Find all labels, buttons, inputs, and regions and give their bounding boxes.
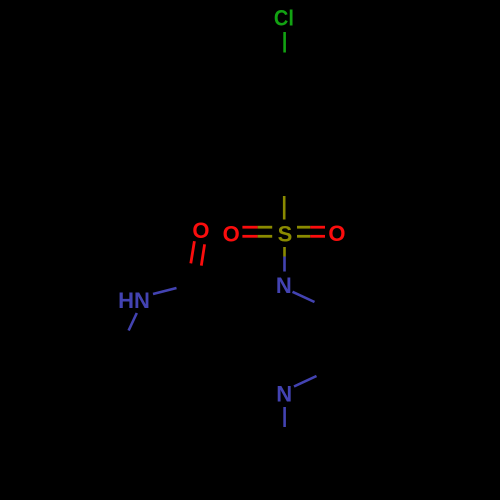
N-CH2 bond up-right (blue half) [294,376,317,387]
C-S bond (olive half) [283,196,286,220]
C=O double bond (red halves) [191,241,195,263]
Cl-C bond (green half) [283,32,286,53]
N-CH2 bond (blue half) [293,292,315,302]
svg-text:S: S [278,222,293,247]
S=O left double bond [242,226,257,229]
S-N bond [283,247,286,257]
N-CH3 bond down (blue half) [283,407,286,427]
S=O right double bond [297,226,310,229]
N-CH3 bond (blue half) [129,313,137,331]
N-C(=O) bond (blue half) [153,288,177,294]
svg-text:N: N [276,273,292,298]
svg-text:Cl: Cl [274,6,294,31]
svg-text:O: O [328,221,345,246]
svg-text:O: O [223,221,240,246]
svg-text:HN: HN [118,288,150,313]
svg-text:O: O [192,218,209,243]
svg-text:N: N [276,382,292,407]
